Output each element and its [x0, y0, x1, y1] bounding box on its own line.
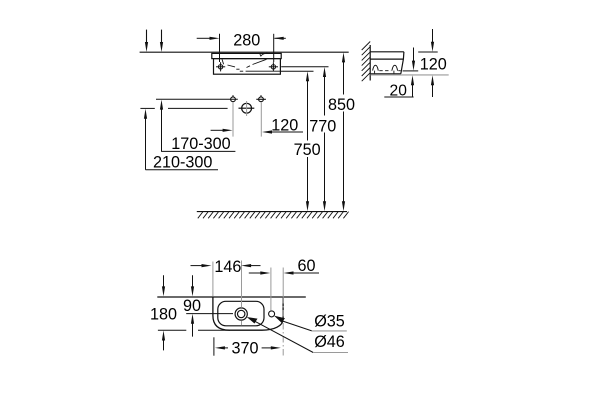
extension line for 120 at rim top: [418, 51, 438, 53]
svg-text:146: 146: [214, 258, 241, 276]
dimension 60 left arrow (points right): [249, 272, 262, 274]
screw hole symbol left: [216, 62, 225, 71]
20 top arrow (down): [413, 48, 415, 63]
reference line 770 (screw height): [281, 66, 328, 68]
outer outline: [213, 297, 283, 330]
svg-text:210-300: 210-300: [153, 154, 212, 172]
90 dimension line to drain: [186, 313, 233, 315]
dimension 280 line left segment: [197, 37, 211, 39]
dimension 120 arrow: [262, 130, 272, 133]
reference line 750 (inner bottom): [280, 70, 313, 72]
120 top arrow (down): [432, 29, 434, 44]
drain outer circle: [235, 308, 247, 320]
vertical dim line 770: [324, 76, 326, 203]
dimension 280 line right segment: [275, 37, 286, 39]
gray centerline tap hole: [270, 268, 272, 311]
dashed interior of basin front view: [222, 53, 280, 71]
svg-text:120: 120: [271, 117, 298, 135]
20 bottom arrow (up): [412, 84, 414, 98]
extension line below circle 2 (gray): [260, 103, 262, 137]
170-300 leader line: [161, 150, 235, 152]
side profile bottom line: [371, 73, 401, 75]
dimension 370 right arrow: [262, 347, 273, 349]
svg-text:770: 770: [309, 117, 336, 135]
370 left extension line: [213, 337, 215, 355]
dimension 60 right arrow (points left): [292, 272, 319, 274]
floor line: [197, 211, 347, 213]
180 bottom arrow: [163, 339, 165, 351]
side profile top line: [370, 51, 404, 53]
svg-text:Ø35: Ø35: [314, 312, 345, 330]
arrow to circle1 extension (170-300): [211, 129, 224, 131]
extension line at inner bottom (20 top): [403, 70, 419, 72]
20 label line: [384, 96, 413, 98]
basin front view body: [214, 59, 281, 75]
O46 underline (gray): [313, 352, 348, 354]
90 bottom arrow: [192, 322, 194, 337]
screw hole symbol right: [269, 62, 278, 71]
leader arrow to drain (O46): [247, 317, 258, 324]
mounting hole circle 2: [256, 95, 266, 102]
wall hatching: [362, 42, 371, 82]
extension line right of 280 / screw centerline right: [273, 34, 275, 62]
gray centerline drain: [241, 261, 243, 308]
basin front view rim: [212, 53, 281, 58]
drain inner circle: [238, 310, 245, 317]
210-300 leader line: [146, 169, 219, 171]
leader arrow to tap hole (O35): [274, 316, 285, 323]
basin bottom reference line (left of basin, two segments): [158, 329, 186, 331]
90 top arrow: [192, 275, 194, 288]
faucet height reference line (lower, two segments): [140, 107, 154, 109]
wall vertical line: [369, 45, 371, 81]
inner bowl outline: [218, 301, 264, 326]
side profile interior dashed: [373, 65, 379, 70]
120 bottom arrow (up from 20 line): [432, 84, 434, 98]
wall reference line (850 top): [140, 51, 349, 53]
extension line left of 280 / screw centerline left: [219, 34, 221, 62]
svg-text:280: 280: [233, 32, 260, 50]
svg-text:850: 850: [328, 96, 355, 114]
dimension 146 left segment: [191, 265, 204, 267]
svg-text:Ø46: Ø46: [314, 333, 345, 351]
svg-text:170-300: 170-300: [171, 135, 230, 153]
tap hole small circle: [269, 311, 275, 317]
dimension 370 left arrow: [215, 346, 225, 349]
svg-text:180: 180: [150, 306, 177, 324]
faucet circle vertical centerline: [246, 101, 248, 116]
svg-text:120: 120: [420, 56, 447, 74]
170-300 vertical with up arrow: [161, 109, 163, 152]
svg-text:60: 60: [297, 257, 315, 275]
extension line below circle 1 (gray): [232, 103, 234, 137]
down arrow left 1 onto wall line: [146, 30, 148, 44]
floor hatching: [198, 212, 349, 219]
hole height reference line (top): [156, 98, 238, 100]
side profile right edge: [401, 52, 404, 74]
mounting hole circle 1: [231, 95, 236, 102]
svg-text:370: 370: [231, 339, 258, 357]
gray centerline basin left edge: [212, 262, 214, 297]
faucet circle: [239, 103, 255, 113]
O35 underline (gray): [312, 330, 347, 332]
gray centerline basin right edge: [282, 268, 284, 298]
svg-text:90: 90: [183, 297, 201, 315]
210-300 vertical with up arrow: [145, 118, 147, 170]
vertical dim line 850: [343, 61, 345, 203]
svg-text:20: 20: [390, 82, 408, 99]
down arrow left 2 onto wall line: [161, 30, 163, 44]
long gray line below side profile: [370, 74, 448, 76]
side profile rim bottom line: [370, 58, 403, 60]
vertical dim line 750: [307, 80, 309, 203]
svg-text:750: 750: [294, 141, 321, 159]
180 top arrow: [163, 275, 165, 288]
top edge line: [157, 296, 305, 298]
dimension 146 right segment: [250, 265, 261, 267]
